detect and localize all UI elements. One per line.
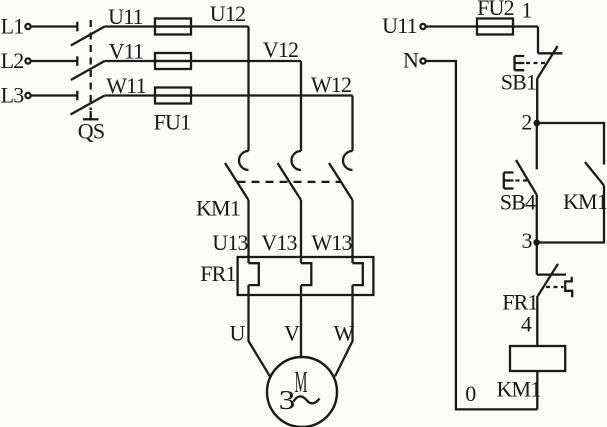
net label U11 control	[382, 13, 417, 38]
svg-text:KM1: KM1	[196, 196, 240, 221]
net label W13	[311, 230, 352, 255]
button SB4 blade	[516, 160, 537, 195]
svg-text:U: U	[229, 321, 245, 346]
svg-text:SB4: SB4	[500, 190, 536, 215]
svg-text:N: N	[403, 48, 419, 73]
net label W11	[106, 73, 146, 98]
svg-text:U13: U13	[212, 230, 248, 255]
wire SB4 to node 3	[536, 195, 538, 243]
svg-text:FU2: FU2	[477, 0, 514, 20]
label FU1	[154, 110, 191, 135]
thermal relay FR1 heater 3	[353, 263, 363, 285]
net label W12	[311, 72, 351, 97]
svg-text:FU1: FU1	[154, 110, 191, 135]
switch QS pole 3 blade	[71, 96, 105, 115]
svg-text:L3: L3	[1, 83, 25, 108]
label L2	[1, 48, 24, 73]
label FR1 contact	[502, 290, 538, 315]
svg-text:3: 3	[521, 228, 532, 253]
svg-text:W12: W12	[311, 72, 351, 97]
button SB1 actuator dashed link	[526, 62, 546, 64]
label W motor terminal	[334, 321, 355, 346]
thermal relay FR1 heater 2	[301, 263, 311, 285]
contactor KM1 main contact pole 1 arc	[239, 151, 249, 170]
wire V13 vertical	[300, 200, 302, 263]
switch QS pole 1 blade	[71, 27, 105, 46]
svg-text:QS: QS	[78, 119, 105, 144]
button SB1 fixed contact bar	[538, 52, 563, 54]
label 3~	[279, 385, 320, 416]
svg-text:V: V	[284, 321, 300, 346]
node 2 junction	[534, 120, 541, 127]
switch QS pole 3 fixed contact	[76, 91, 78, 101]
wire U11 to FU2	[426, 25, 538, 27]
svg-text:L2: L2	[1, 48, 24, 73]
label L1	[1, 14, 24, 39]
svg-text:3: 3	[279, 385, 295, 416]
svg-text:KM1: KM1	[563, 189, 607, 214]
thermal contact FR1 blade	[538, 264, 558, 296]
node 3 junction	[533, 239, 540, 246]
motor M circle	[267, 357, 337, 427]
label SB1	[501, 70, 537, 95]
button SB4 actuator dashed link	[516, 179, 529, 181]
label U motor terminal	[229, 321, 245, 346]
svg-text:2: 2	[521, 110, 531, 135]
terminal L3	[25, 93, 30, 98]
button SB4 actuator E	[504, 173, 514, 189]
wire V11 QS to corner	[105, 60, 301, 62]
thermal contact FR1 wire from node 3	[536, 243, 538, 275]
contactor KM1 main contact pole 3 arc	[343, 151, 353, 170]
button SB4 wire from node 2	[536, 123, 538, 169]
svg-text:M: M	[295, 366, 308, 399]
svg-text:SB1: SB1	[501, 70, 537, 95]
wire corner down to SB1	[537, 27, 539, 54]
switch QS handle bar	[83, 118, 99, 120]
wire W11 QS to corner	[105, 94, 353, 96]
net label V13	[261, 230, 297, 255]
net label V12	[263, 37, 299, 62]
wire coil to bottom rail	[536, 371, 538, 409]
net label U12	[210, 1, 246, 26]
wire V12 vertical drop	[300, 61, 302, 151]
contactor KM1 linkage dashed line	[238, 181, 342, 183]
label KM1 main contacts	[196, 196, 240, 221]
svg-text:U12: U12	[210, 1, 246, 26]
pin label 0	[465, 381, 476, 406]
label SB4	[500, 190, 536, 215]
button SB1 actuator E	[515, 56, 525, 70]
label QS	[78, 119, 105, 144]
wire motor V lead	[300, 285, 302, 357]
button SB1 blade	[537, 46, 558, 79]
net label U11	[108, 4, 143, 29]
wire FR1 to coil	[536, 296, 538, 346]
svg-text:W13: W13	[311, 230, 352, 255]
switch QS pole 2 fixed contact	[76, 56, 78, 66]
terminal L1	[25, 24, 30, 29]
fuse FU1 pole 3	[155, 88, 191, 104]
svg-text:KM1: KM1	[496, 377, 540, 402]
contactor KM1 main contact pole 2 arc	[292, 151, 302, 170]
wire W13 vertical	[351, 200, 353, 263]
thermal contact FR1 fixed bar	[537, 273, 566, 275]
thermal contact FR1 actuator hook	[565, 277, 572, 298]
svg-text:V12: V12	[263, 37, 299, 62]
wire SB1 to node 2	[536, 79, 538, 123]
wire L1 to QS	[31, 25, 77, 27]
svg-text:W11: W11	[106, 73, 146, 98]
svg-text:1: 1	[521, 0, 531, 23]
contactor KM1 main contact pole 2 blade	[278, 163, 302, 200]
wire U12 vertical drop	[247, 27, 249, 152]
label KM1 coil	[496, 377, 540, 402]
contactor KM1 main contact pole 1 blade	[225, 163, 249, 200]
wire N rail	[426, 61, 537, 409]
pin label 2	[521, 110, 531, 135]
pin label 1	[521, 0, 531, 23]
wire KM1 aux to node 3	[537, 186, 604, 243]
terminal N	[420, 58, 425, 63]
svg-text:FR1: FR1	[200, 261, 236, 286]
coil KM1	[510, 346, 565, 371]
terminal L2	[25, 58, 30, 63]
label FU2	[477, 0, 514, 20]
fuse FU1 pole 1	[155, 19, 191, 35]
wire L2 to QS	[31, 60, 77, 62]
contactor KM1 aux contact blade	[585, 162, 604, 186]
svg-text:L1: L1	[1, 14, 24, 39]
pin label 4	[521, 312, 532, 337]
svg-text:W: W	[334, 321, 355, 346]
wire motor W lead	[335, 285, 353, 376]
switch QS pole 2 blade	[71, 61, 105, 80]
net label U13	[212, 230, 248, 255]
label L3	[1, 83, 25, 108]
pin label 3	[521, 228, 532, 253]
svg-text:U11: U11	[108, 4, 143, 29]
wire W12 vertical drop	[351, 96, 353, 152]
svg-text:4: 4	[521, 312, 532, 337]
switch QS linkage dashed line	[90, 20, 92, 119]
terminal U11 control	[420, 24, 425, 29]
wire motor U lead	[249, 285, 270, 376]
contactor KM1 main contact pole 3 blade	[329, 163, 353, 200]
wire node 2 branch right	[537, 123, 604, 165]
fuse FU2	[477, 19, 513, 35]
net label V11	[109, 39, 144, 64]
svg-text:0: 0	[465, 381, 476, 406]
thermal contact FR1 dashed link	[546, 286, 564, 288]
label M	[295, 366, 308, 399]
svg-text:V11: V11	[109, 39, 144, 64]
wire U11 QS to corner	[105, 25, 249, 27]
wire U13 vertical	[247, 200, 249, 263]
wire L3 to QS	[31, 94, 77, 96]
svg-text:U11: U11	[382, 13, 417, 38]
svg-text:V13: V13	[261, 230, 297, 255]
label FR1 heaters	[200, 261, 236, 286]
label V motor terminal	[284, 321, 300, 346]
fuse FU1 pole 2	[155, 53, 191, 69]
switch QS pole 1 fixed contact	[76, 22, 78, 32]
thermal relay FR1 heater 1	[249, 263, 259, 285]
label KM1 aux contact	[563, 189, 607, 214]
label N	[403, 48, 419, 73]
thermal relay FR1 box	[238, 257, 374, 295]
